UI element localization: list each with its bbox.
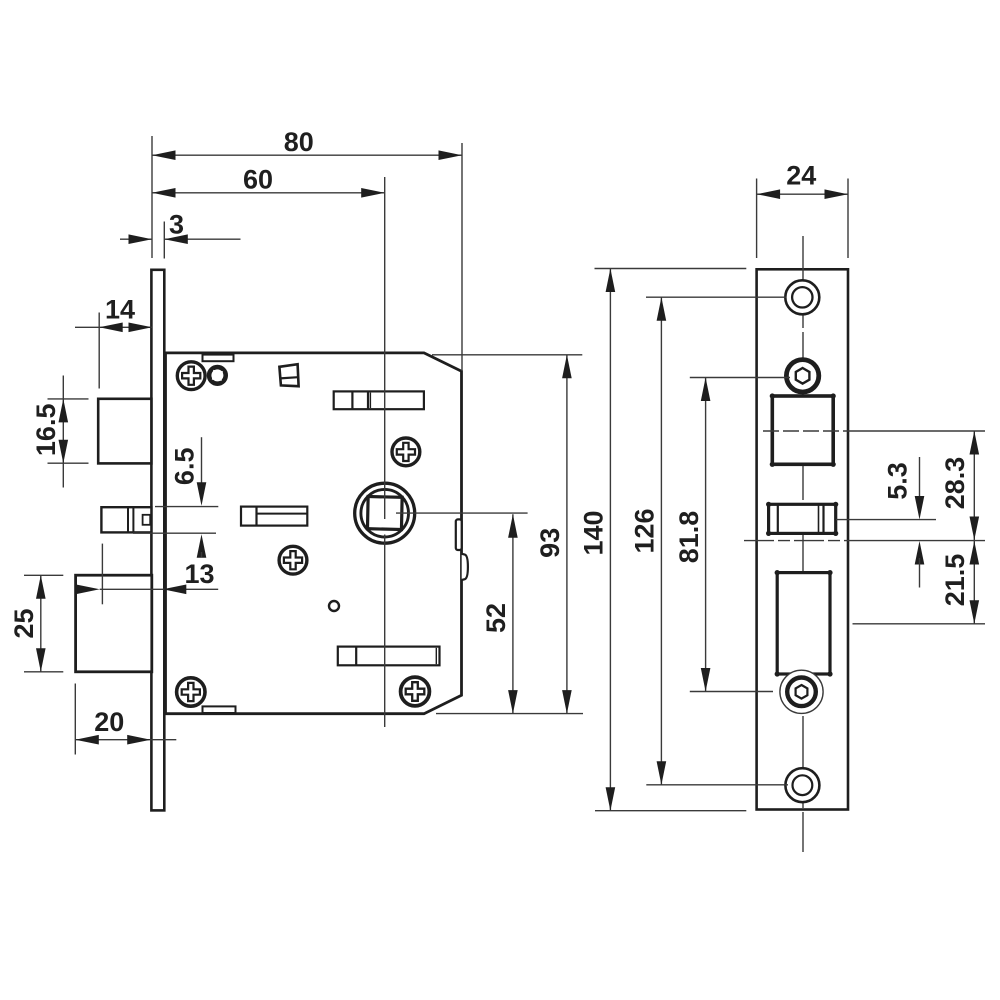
- svg-text:25: 25: [9, 608, 39, 638]
- svg-text:16.5: 16.5: [31, 404, 61, 457]
- lock case outline: [166, 353, 462, 714]
- dim 81.8: [674, 378, 790, 692]
- faceplate front: [757, 269, 848, 809]
- screw bottom-left: [177, 678, 205, 706]
- dim 52: [481, 514, 518, 713]
- dim 93: [432, 355, 583, 714]
- deadbolt: [76, 575, 152, 672]
- svg-text:140: 140: [579, 510, 609, 555]
- middle slot: [241, 507, 307, 526]
- svg-text:52: 52: [481, 603, 511, 633]
- bottom screw hole: [785, 768, 819, 802]
- dim 13: [76, 544, 218, 605]
- hex set screw: [786, 360, 818, 392]
- dim 14: [75, 295, 152, 389]
- faceplate (side view): [151, 270, 164, 811]
- top screw hole: [785, 280, 819, 314]
- svg-text:20: 20: [94, 707, 124, 737]
- svg-text:81.8: 81.8: [674, 511, 704, 564]
- dim 16.5: [31, 376, 88, 488]
- vertical centerline: [802, 236, 804, 852]
- lower rectangular hole: [775, 570, 833, 677]
- upper slot: [334, 391, 424, 409]
- lower slot: [338, 647, 440, 666]
- vertical centerline (spindle axis / 60 ext): [384, 177, 386, 519]
- right edge notch: [456, 519, 462, 550]
- screw bottom-right: [401, 677, 430, 706]
- small slotted pin: [209, 367, 226, 384]
- dim 60: [152, 165, 385, 198]
- svg-text:14: 14: [105, 295, 135, 325]
- spindle follower: [355, 483, 415, 543]
- screw mid-left: [279, 546, 307, 574]
- auxiliary latch: [101, 507, 151, 532]
- svg-text:6.5: 6.5: [169, 448, 199, 486]
- dim 28.3 + 21.5: [852, 431, 985, 624]
- screw mid-right: [392, 438, 420, 466]
- bottom tab: [203, 706, 236, 713]
- horizontal centerline spindle: [396, 512, 528, 514]
- svg-text:5.3: 5.3: [883, 462, 913, 500]
- horizontal centerline: [744, 540, 855, 542]
- svg-text:24: 24: [786, 160, 816, 190]
- svg-text:13: 13: [184, 559, 214, 589]
- svg-text:80: 80: [284, 127, 314, 157]
- small dot: [329, 601, 339, 611]
- screw top-left: [177, 362, 205, 390]
- svg-text:21.5: 21.5: [940, 554, 970, 607]
- svg-text:28.3: 28.3: [940, 457, 970, 510]
- svg-text:126: 126: [630, 508, 660, 553]
- top tab: [203, 355, 234, 362]
- dim 80: [152, 127, 462, 371]
- dim 140: [579, 269, 747, 811]
- dim 126: [630, 297, 789, 785]
- dim 24: [757, 160, 848, 258]
- dim 6.5: [133, 437, 218, 558]
- dim 25: [9, 575, 64, 672]
- square hole: [763, 393, 852, 467]
- right edge bump: [462, 554, 468, 580]
- latch bolt: [98, 399, 151, 464]
- dim 20: [75, 684, 176, 755]
- svg-text:3: 3: [169, 210, 184, 240]
- svg-text:60: 60: [243, 165, 273, 195]
- small rectangular hole: [766, 502, 936, 536]
- dim 5.3: [883, 457, 925, 588]
- dim 3: [120, 210, 241, 259]
- svg-text:93: 93: [535, 528, 565, 558]
- flag detail: [279, 364, 298, 386]
- cylinder screw hole: [780, 670, 823, 713]
